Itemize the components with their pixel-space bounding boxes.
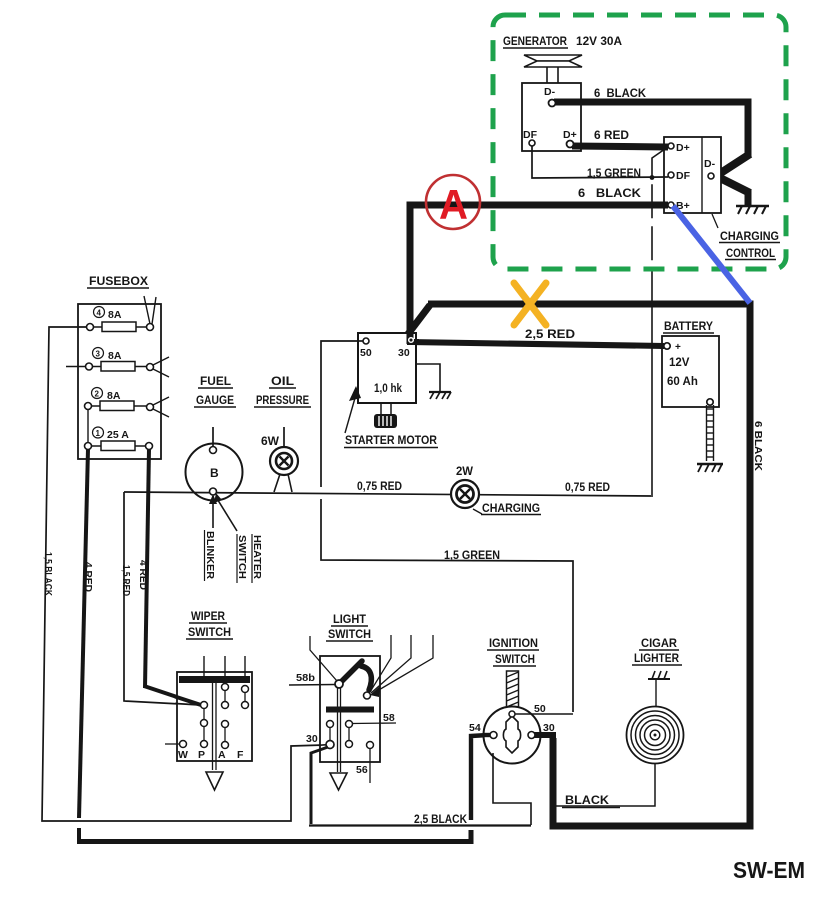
charging control terminal D-	[704, 158, 716, 179]
wiper switch feed lines above	[204, 656, 245, 677]
svg-text:HEATER: HEATER	[251, 535, 263, 579]
light switch fan arrowhead	[370, 686, 380, 697]
wire 6 RED generator D+ to charging control D+	[572, 146, 666, 147]
light switch box	[320, 656, 380, 762]
svg-text:CHARGING: CHARGING	[482, 503, 540, 515]
light switch shaft and arrow	[330, 688, 347, 790]
generator terminal D-	[549, 100, 556, 107]
fuse 1 25A	[85, 427, 153, 451]
svg-text:SWITCH: SWITCH	[328, 627, 371, 641]
ignition terminal 30	[528, 722, 555, 739]
svg-text:IGNITION: IGNITION	[489, 638, 538, 650]
wiper switch contact bar	[179, 676, 250, 683]
wire 6 BLACK main: node A down to starter terminal 30	[407, 202, 414, 344]
svg-text:A: A	[439, 181, 468, 228]
svg-text:BLINKER: BLINKER	[204, 531, 216, 579]
svg-text:0,75 RED: 0,75 RED	[565, 482, 610, 494]
svg-text:FUSEBOX: FUSEBOX	[89, 274, 148, 288]
svg-text:STARTER MOTOR: STARTER MOTOR	[345, 433, 437, 447]
svg-text:4 RED: 4 RED	[82, 562, 93, 592]
svg-text:25 A: 25 A	[107, 429, 129, 441]
svg-text:BLACK: BLACK	[565, 795, 610, 807]
ground at starter	[429, 392, 451, 399]
svg-text:56: 56	[356, 764, 368, 776]
svg-text:FUEL: FUEL	[200, 376, 231, 388]
svg-text:1: 1	[96, 429, 101, 438]
svg-text:4 RED: 4 RED	[137, 560, 148, 590]
svg-text:6 RED: 6 RED	[594, 130, 629, 142]
ignition key barrel (hatched)	[507, 671, 519, 707]
label GENERATOR 12V 30A	[503, 34, 622, 48]
ground above cigar lighter	[648, 671, 670, 679]
generator terminal D+	[567, 141, 574, 148]
fusebox housing	[78, 304, 161, 459]
svg-text:GENERATOR: GENERATOR	[503, 34, 567, 48]
svg-text:30: 30	[543, 722, 555, 734]
light switch terminal 58b	[289, 672, 343, 688]
ignition switch body	[484, 707, 541, 764]
svg-text:B: B	[210, 466, 219, 480]
label BLINKER (rotated)	[204, 530, 216, 581]
battery box 12V 60Ah	[660, 336, 719, 407]
svg-text:P: P	[198, 749, 205, 761]
svg-text:SWITCH: SWITCH	[188, 625, 231, 639]
wire 2,5 RED starter 30 to battery plus	[408, 342, 664, 346]
svg-text:4: 4	[97, 309, 102, 318]
light switch hook contact	[361, 666, 371, 690]
svg-text:8A: 8A	[107, 390, 121, 402]
svg-text:50: 50	[534, 703, 546, 715]
label WIPER SWITCH	[186, 611, 233, 639]
svg-text:DF: DF	[676, 170, 691, 182]
svg-text:CONTROL: CONTROL	[726, 248, 775, 260]
svg-text:58b: 58b	[296, 672, 315, 684]
label IGNITION SWITCH	[487, 638, 539, 666]
svg-text:2,5 BLACK: 2,5 BLACK	[414, 814, 468, 826]
battery ground strap terminal	[707, 399, 713, 405]
light switch lever (thick)	[340, 661, 362, 683]
label OIL PRESSURE	[254, 376, 311, 407]
charging control box	[663, 137, 721, 213]
wiper terminals column F	[242, 686, 249, 709]
charging control terminal DF	[668, 170, 691, 182]
svg-text:DF: DF	[523, 129, 538, 141]
svg-text:SWITCH: SWITCH	[495, 654, 535, 666]
wire ends into charging control box	[663, 147, 668, 205]
generator terminal DF	[529, 140, 535, 146]
svg-text:30: 30	[306, 733, 318, 745]
wiper switch internal links	[204, 690, 245, 742]
label FUSEBOX	[87, 274, 149, 288]
svg-text:BATTERY: BATTERY	[664, 321, 713, 333]
wire 6 BLACK long run right side down and across bottom to ignition 30	[428, 304, 750, 826]
svg-text:6 BLACK: 6 BLACK	[594, 88, 647, 100]
label CIGAR LIGHTER	[632, 638, 682, 665]
svg-text:58: 58	[383, 712, 395, 724]
wire thick branch from starter 30 up to long 6 BLACK run	[408, 305, 430, 334]
light switch feed lines above	[310, 635, 433, 694]
wire 4 RED fuse1-right down to wiper switch	[144, 449, 201, 705]
svg-text:0,75 RED: 0,75 RED	[357, 481, 402, 493]
pointer to HEATER SWITCH	[214, 493, 237, 531]
svg-text:3: 3	[96, 350, 101, 359]
wire 6 BLACK generator D- to charging control D- with zigzag	[554, 102, 750, 205]
svg-text:2,5 RED: 2,5 RED	[525, 329, 575, 341]
svg-text:54: 54	[469, 722, 481, 734]
label BLACK	[562, 795, 620, 808]
wire 6 BLACK B+ to node A (thick horizontal)	[407, 202, 669, 209]
wiper switch box	[177, 672, 252, 761]
ground under battery strap	[697, 464, 723, 472]
battery ground strap (laddered)	[706, 405, 714, 461]
label BATTERY	[663, 321, 714, 333]
svg-text:60 Ah: 60 Ah	[667, 376, 698, 388]
svg-text:GAUGE: GAUGE	[196, 395, 234, 407]
wire fuse2 to fuse1 link	[87, 410, 89, 443]
labels W P A F	[178, 749, 244, 761]
svg-text:F: F	[237, 749, 244, 761]
annotation orange X mark	[514, 283, 546, 325]
annotation blue line from B+	[673, 206, 750, 303]
light switch terminal 58 and link	[346, 712, 397, 748]
svg-text:LIGHTER: LIGHTER	[634, 653, 680, 665]
svg-text:12V 30A: 12V 30A	[576, 34, 622, 48]
generator pulley	[524, 55, 582, 83]
node junction sense line x GREEN wire	[650, 175, 655, 180]
wire ends into wiper box	[175, 697, 201, 706]
starter terminal 30	[398, 338, 413, 359]
svg-text:D+: D+	[563, 129, 577, 141]
svg-text:CHARGING: CHARGING	[720, 231, 779, 243]
ignition key shape	[503, 716, 520, 753]
wire 1,5 GREEN generator DF to charging control DF	[532, 146, 667, 178]
annotation green dashed box around charging system	[493, 15, 786, 269]
wire 1,5 RED from bus down to wiper switch P	[124, 492, 199, 705]
svg-text:1,5 RED: 1,5 RED	[120, 565, 131, 596]
fuse 4 8A	[87, 296, 157, 332]
wire 2,5 BLACK light switch 30 down and right	[309, 747, 531, 826]
ignition terminal 54	[469, 722, 497, 739]
svg-text:A: A	[218, 749, 226, 761]
svg-text:D-: D-	[544, 86, 556, 98]
wire 0,75 RED charge-lamp bus	[124, 492, 651, 496]
fuel gauge B	[186, 427, 243, 501]
svg-text:W: W	[178, 749, 188, 761]
label HEATER SWITCH (rotated)	[236, 534, 263, 583]
wire thin loop from ignition base to 2,5 BLACK bus	[493, 753, 531, 825]
battery plus terminal	[664, 343, 670, 349]
svg-text:30: 30	[398, 347, 410, 359]
wire end into light switch box	[318, 744, 327, 747]
svg-text:D-: D-	[704, 158, 716, 170]
fuse 3 8A	[66, 348, 169, 378]
wire starter to ground	[416, 364, 440, 391]
charging control terminal B+	[668, 200, 690, 212]
svg-text:1,5 BLACK: 1,5 BLACK	[42, 552, 53, 597]
svg-text:1,5 GREEN: 1,5 GREEN	[444, 550, 500, 562]
wire 4 RED fuse1-left down (with crossover gap)	[79, 449, 88, 818]
ignition terminal 50	[509, 703, 546, 717]
wiper terminals column A	[222, 684, 229, 749]
fuse 2 8A	[85, 388, 170, 418]
svg-text:D+: D+	[676, 142, 690, 154]
generator terminal labels	[523, 86, 577, 141]
starter commutator symbol	[374, 403, 397, 428]
wire ends at ignition terminals	[484, 733, 542, 737]
wire 1,5 GREEN starter 50 to ignition 50	[321, 341, 573, 712]
svg-text:1,5 GREEN: 1,5 GREEN	[587, 168, 641, 180]
wire BLACK cigar lighter to ignition feed	[556, 764, 655, 806]
svg-text:6W: 6W	[261, 436, 279, 448]
label FUEL GAUGE	[194, 376, 236, 407]
wiper terminal W with stub	[165, 741, 187, 748]
charging control terminal D+	[668, 142, 690, 154]
svg-text:2: 2	[95, 390, 100, 399]
svg-text:OIL: OIL	[271, 376, 294, 388]
node A (red circle annotation)	[426, 175, 480, 229]
generator box	[522, 83, 581, 151]
svg-text:WIPER: WIPER	[191, 611, 226, 623]
svg-text:PRESSURE: PRESSURE	[256, 395, 309, 407]
svg-text:CIGAR: CIGAR	[641, 638, 678, 650]
wiper terminals column P	[201, 702, 208, 748]
wiper switch shaft and arrow	[206, 683, 223, 790]
svg-text:8A: 8A	[108, 350, 122, 362]
label STARTER MOTOR with arrow	[344, 386, 438, 448]
svg-text:+: +	[675, 342, 681, 353]
svg-text:6 BLACK: 6 BLACK	[578, 188, 642, 200]
ground under charging control zigzag	[736, 206, 769, 214]
oil pressure lamp 6W	[261, 427, 298, 492]
starter motor box	[358, 333, 416, 403]
svg-text:SW-EM: SW-EM	[733, 857, 805, 883]
light switch contact bar	[326, 707, 374, 713]
pointer to BLINKER	[209, 494, 217, 528]
wire thin sense line from D+ down to charge-lamp bus	[652, 149, 665, 497]
svg-text:LIGHT: LIGHT	[333, 614, 366, 626]
svg-text:50: 50	[360, 347, 372, 359]
svg-text:12V: 12V	[669, 357, 690, 369]
svg-text:SWITCH: SWITCH	[236, 535, 248, 579]
svg-text:6 BLACK: 6 BLACK	[752, 421, 764, 471]
wire 4 RED bottom bus to ignition 54	[77, 830, 471, 842]
wire ends into starter box	[357, 331, 419, 344]
svg-text:8A: 8A	[108, 309, 122, 321]
light switch terminal 30 column	[306, 721, 334, 749]
wire 1,5 BLACK fuse 4 to light switch 30 (long thin)	[42, 327, 324, 821]
cigar lighter element (spiral)	[627, 679, 684, 764]
label CHARGING (lamp)	[473, 503, 541, 515]
svg-text:1,0 hk: 1,0 hk	[374, 383, 403, 395]
light switch fan terminal	[364, 692, 371, 699]
svg-text:2W: 2W	[456, 466, 473, 478]
charging indicator lamp 2W	[451, 466, 479, 508]
light switch terminal 56	[356, 742, 374, 784]
label LIGHT SWITCH	[326, 614, 373, 641]
starter terminal 50	[360, 338, 372, 359]
wire ignition 50 to 1,5 GREEN riser	[515, 713, 573, 715]
label CHARGING CONTROL with pointer	[712, 214, 780, 260]
